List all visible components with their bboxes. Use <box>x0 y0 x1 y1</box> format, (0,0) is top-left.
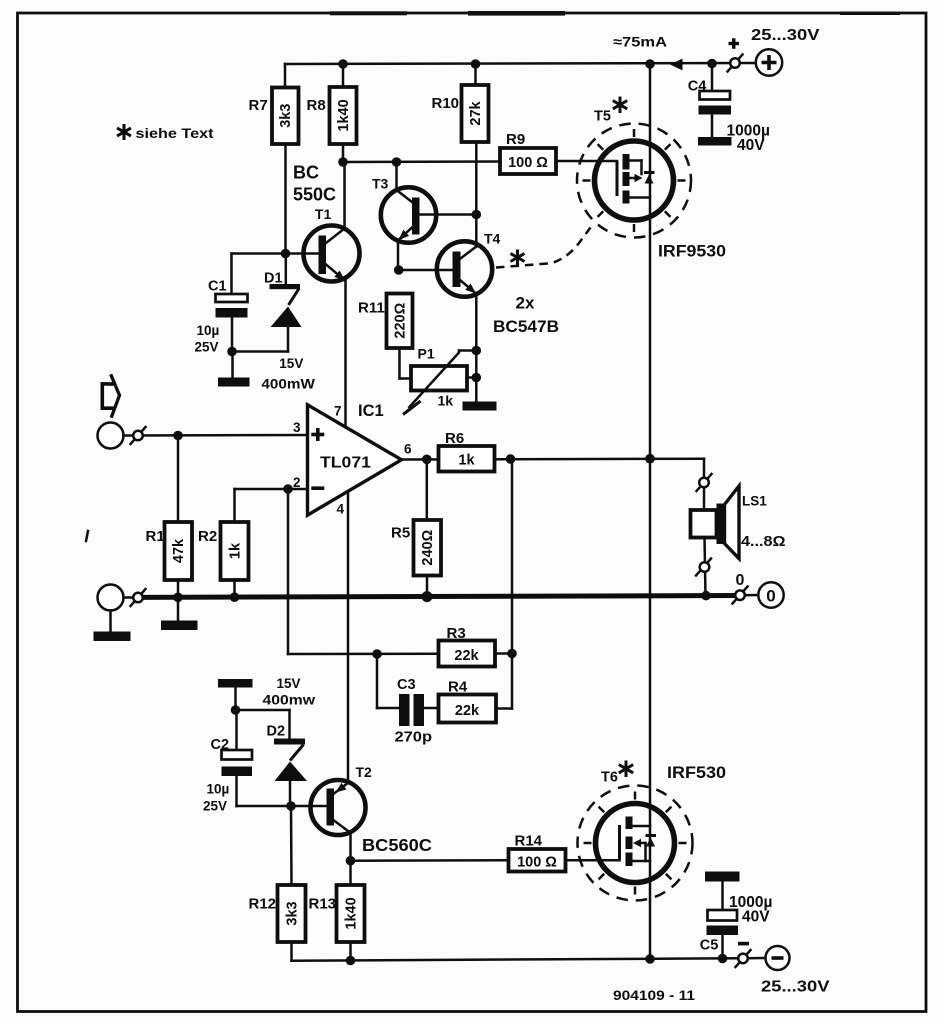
svg-text:siehe Text: siehe Text <box>136 126 215 141</box>
svg-text:D2: D2 <box>267 723 286 739</box>
label IC1 <box>358 402 384 420</box>
label siehe Text <box>136 126 215 141</box>
mosfet T5 dashed heatsink circle <box>577 124 691 238</box>
node junction T3 collector <box>392 157 402 167</box>
svg-text:240Ω: 240Ω <box>420 529 436 565</box>
svg-text:25V: 25V <box>195 339 219 354</box>
wire T2 collector down <box>349 833 352 862</box>
wire ground rail to 0 terminal <box>734 594 758 597</box>
label IRF530 <box>667 763 726 782</box>
label 2x BC547B <box>493 293 559 336</box>
label T5 with asterisk <box>594 97 627 125</box>
svg-text:15V: 15V <box>279 356 303 371</box>
svg-text:R1: R1 <box>146 528 165 545</box>
svg-text:25...30V: 25...30V <box>751 27 820 44</box>
node junction T2 collector / R13 / R14 <box>346 856 356 866</box>
minus sign above connector <box>738 942 749 946</box>
svg-text:40V: 40V <box>737 137 765 154</box>
wire speaker branch <box>703 459 706 510</box>
svg-text:4...8Ω: 4...8Ω <box>741 534 786 550</box>
connector plug 0 terminal <box>733 587 748 604</box>
svg-text:4: 4 <box>337 502 345 517</box>
node junction T3 emitter / R11 / T4 base <box>394 265 404 275</box>
node junction rail / C4 <box>707 59 717 69</box>
resistor R3 <box>439 625 496 667</box>
svg-text:6: 6 <box>404 442 412 457</box>
node junction output / R5 <box>422 455 432 465</box>
label T6 with asterisk <box>601 761 633 786</box>
connector plug negative supply <box>736 950 751 967</box>
node junction ground / R5 <box>422 591 433 602</box>
svg-text:400mW: 400mW <box>261 376 315 391</box>
svg-text:22k: 22k <box>455 703 480 719</box>
svg-text:40V: 40V <box>742 909 770 926</box>
wire bias line below R8 <box>343 160 500 163</box>
node junction R3 / R4 <box>507 649 517 659</box>
wire T4 emitter down <box>475 294 478 402</box>
svg-text:T5: T5 <box>594 109 611 125</box>
resistor R6 <box>439 430 495 472</box>
svg-text:2: 2 <box>293 475 301 490</box>
svg-text:C4: C4 <box>688 79 707 95</box>
svg-text:T2: T2 <box>356 764 373 780</box>
stray apostrophe mark <box>86 531 88 541</box>
svg-text:25V: 25V <box>203 799 227 814</box>
svg-text:270p: 270p <box>395 730 433 746</box>
connector plug speaker bottom <box>696 559 711 576</box>
wire main vertical drain line <box>649 64 652 959</box>
wire positive supply rail <box>285 63 757 64</box>
svg-text:R6: R6 <box>445 430 464 447</box>
svg-text:2x: 2x <box>516 293 535 312</box>
node junction rail / main vertical <box>645 59 655 69</box>
svg-text:≈75mA: ≈75mA <box>613 34 667 50</box>
svg-text:220Ω: 220Ω <box>392 302 408 338</box>
svg-text:R9: R9 <box>506 131 525 148</box>
svg-text:0: 0 <box>736 572 745 589</box>
wire speaker bottom <box>705 538 706 596</box>
svg-text:R13: R13 <box>309 896 337 913</box>
mosfet T5 IRF9530 <box>595 141 674 220</box>
wire T3 emitter down <box>397 240 400 270</box>
wire IC1 pin4 to T2 emitter <box>347 492 350 783</box>
capacitor C5 <box>700 872 773 959</box>
current direction arrow 75mA <box>670 59 683 71</box>
wire R4 right up <box>496 459 512 709</box>
svg-text:LS1: LS1 <box>742 494 767 509</box>
resistor R14 <box>509 833 566 872</box>
wire C1/D1 bottom link <box>232 350 288 353</box>
svg-text:T3: T3 <box>372 175 389 191</box>
dashed link T4 to T5 <box>496 228 591 268</box>
svg-text:T6: T6 <box>601 770 618 786</box>
terminal input bottom <box>98 585 124 611</box>
node junction C1 bottom <box>227 347 237 357</box>
wire feedback horizontal to R3 <box>288 652 439 655</box>
ground below P1 <box>463 402 497 411</box>
wire R14 to T6 gate <box>566 859 620 862</box>
node junction rail / R8 <box>338 59 348 69</box>
svg-text:T4: T4 <box>484 231 501 247</box>
wire T4 base link <box>399 269 453 272</box>
svg-text:R8: R8 <box>307 97 326 114</box>
wire T1 base node <box>286 252 319 255</box>
resistor R10 <box>432 64 489 215</box>
capacitor C4 <box>688 64 770 155</box>
label BC560C <box>362 835 432 855</box>
ground below C4 <box>698 137 732 146</box>
node junction R8 bottom <box>338 157 348 167</box>
node junction T1 base / D1 / C1 <box>281 249 291 259</box>
svg-text:100 Ω: 100 Ω <box>517 854 557 870</box>
wire ground rail <box>124 596 735 598</box>
connector plug input bottom <box>131 589 146 606</box>
svg-text:27k: 27k <box>468 100 484 125</box>
capacitor C3 270p <box>395 677 433 746</box>
transistor T3 <box>372 175 436 242</box>
node junction ground / speaker return <box>701 591 711 601</box>
resistor R8 <box>307 64 357 162</box>
node junction feedback / C3 branch <box>372 649 382 659</box>
svg-text:100 Ω: 100 Ω <box>508 155 548 171</box>
wire C3 to R4 <box>424 707 439 710</box>
mosfet T6 IRF530 <box>596 804 675 883</box>
svg-text:10µ: 10µ <box>207 782 230 797</box>
connector plug positive supply <box>728 55 743 72</box>
svg-text:TL071: TL071 <box>320 455 371 472</box>
node junction output / main vertical <box>645 454 655 464</box>
mosfet T6 dashed heatsink circle <box>578 786 693 901</box>
resistor R2 <box>198 489 307 598</box>
svg-text:R7: R7 <box>249 97 268 114</box>
wire feedback vertical from pin2 <box>287 489 290 654</box>
transistor T2 <box>311 764 373 835</box>
terminal +25...30V <box>751 27 820 76</box>
potentiometer P1 <box>400 345 477 414</box>
label 0 node <box>736 572 745 589</box>
resistor R12 <box>249 806 306 961</box>
svg-text:3k3: 3k3 <box>278 104 294 128</box>
svg-text:R12: R12 <box>249 896 277 913</box>
wire connector to minus terminal <box>748 957 766 960</box>
capacitor C2 <box>203 710 252 814</box>
wire T3 base to T4 collector node <box>420 213 477 216</box>
svg-text:BC547B: BC547B <box>493 317 559 336</box>
svg-text:BC: BC <box>293 162 319 182</box>
wire T3 collector up <box>395 162 398 190</box>
svg-text:1k: 1k <box>228 542 244 559</box>
svg-text:1k: 1k <box>458 453 475 469</box>
op-amp IC1 TL071 <box>293 404 412 517</box>
connector plug speaker top <box>697 474 712 491</box>
svg-text:R3: R3 <box>447 625 466 642</box>
svg-text:R11: R11 <box>358 299 385 316</box>
svg-text:C3: C3 <box>397 677 416 693</box>
resistor R11 <box>358 294 413 349</box>
ground below C1 <box>218 352 250 387</box>
svg-text:R14: R14 <box>515 833 543 850</box>
node junction T4 emitter / P1 wiper <box>472 346 482 356</box>
node junction T4 emitter / P1 end <box>472 373 482 383</box>
svg-text:C5: C5 <box>700 938 719 954</box>
node junction ground / R1 <box>173 593 183 603</box>
svg-text:904109 - 11: 904109 - 11 <box>613 988 696 1003</box>
svg-text:T1: T1 <box>315 206 332 222</box>
svg-text:0: 0 <box>766 586 775 605</box>
node junction output / feedback <box>506 454 516 464</box>
resistor R1 <box>146 436 193 598</box>
wire T4 collector up <box>475 215 478 247</box>
wire ground node to D2 top <box>236 710 290 739</box>
wire T2 collector to R14 <box>351 859 509 862</box>
node junction rail / R13 <box>346 956 356 966</box>
connector plug input top <box>131 427 146 444</box>
wire C3 branch down <box>377 654 399 708</box>
wire input to pin3 <box>124 434 308 437</box>
svg-text:R4: R4 <box>448 679 468 696</box>
ground wire below input bottom <box>94 611 131 642</box>
label 904109-11 <box>613 988 696 1003</box>
node junction pin2 / feedback <box>283 484 293 494</box>
label 15V 400mw <box>263 676 316 708</box>
capacitor C1 <box>195 254 286 355</box>
svg-text:R10: R10 <box>432 95 460 112</box>
plus sign above supply connector <box>729 38 740 49</box>
wire negative supply rail <box>292 958 738 960</box>
svg-text:BC560C: BC560C <box>362 835 432 855</box>
svg-text:3: 3 <box>293 420 301 435</box>
zener diode D2 <box>267 723 308 806</box>
svg-text:1k40: 1k40 <box>336 99 352 131</box>
svg-text:R2: R2 <box>198 528 217 545</box>
node junction input / R1 <box>173 431 183 441</box>
wire T1 emitter to IC1 pin7 <box>344 281 347 428</box>
terminal input top <box>98 423 124 449</box>
node junction rail / R10 <box>471 59 481 69</box>
svg-text:IRF530: IRF530 <box>667 763 726 782</box>
asterisk siehe Text <box>117 124 131 140</box>
ground bar below R1 <box>161 597 198 630</box>
svg-text:10µ: 10µ <box>197 323 220 338</box>
transistor T4 <box>437 231 501 297</box>
svg-text:400mw: 400mw <box>263 693 316 708</box>
node junction rail / main vertical <box>645 954 655 964</box>
wire IC1 output line <box>402 457 705 460</box>
loudspeaker LS1 <box>691 486 786 559</box>
transistor T1 <box>304 206 360 281</box>
terminal -25...30V <box>761 946 830 996</box>
wire R3 right to feedback node <box>495 652 512 655</box>
asterisk near T4 <box>511 250 525 266</box>
svg-text:22k: 22k <box>454 648 479 664</box>
resistor R13 <box>309 861 365 961</box>
svg-text:R5: R5 <box>391 525 410 542</box>
svg-text:1k: 1k <box>438 393 454 409</box>
resistor R7 <box>249 64 299 254</box>
svg-text:1k40: 1k40 <box>344 897 360 929</box>
node junction ground / R2 <box>230 592 240 602</box>
wire T1 collector up <box>343 162 346 229</box>
node junction C2 top / D2 <box>231 705 241 715</box>
svg-text:C2: C2 <box>211 737 230 753</box>
svg-text:7: 7 <box>334 404 342 419</box>
svg-text:IRF9530: IRF9530 <box>658 242 726 261</box>
svg-text:47k: 47k <box>171 538 187 563</box>
svg-text:550C: 550C <box>293 184 336 204</box>
label approx 75mA <box>613 34 667 50</box>
label BC 550C <box>293 162 336 204</box>
node junction rail / C5 <box>718 954 728 964</box>
ground bar above C2 <box>218 679 253 710</box>
svg-text:25...30V: 25...30V <box>761 979 830 996</box>
resistor R5 <box>391 459 441 597</box>
resistor R4 <box>439 679 497 723</box>
input arrow tag <box>102 374 119 417</box>
svg-text:C1: C1 <box>208 278 227 294</box>
node junction T3 base / R10 / T4 collector <box>472 210 482 220</box>
wire C2 bottom to T2 base <box>237 805 327 808</box>
node junction D2 / T2 base / R12 <box>286 801 296 811</box>
terminal 0 <box>758 582 783 607</box>
svg-text:P1: P1 <box>418 345 435 361</box>
svg-text:3k3: 3k3 <box>285 901 301 925</box>
resistor R9 <box>500 131 556 174</box>
zener diode D1 <box>261 254 315 392</box>
svg-text:15V: 15V <box>277 676 301 691</box>
wire R9 to T5 gate <box>556 160 617 163</box>
label IRF9530 <box>658 242 726 261</box>
svg-text:IC1: IC1 <box>358 402 384 420</box>
